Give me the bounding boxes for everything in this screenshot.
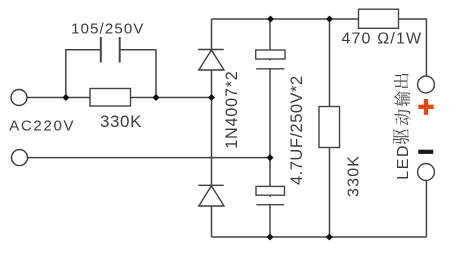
wire C1 left bracket bbox=[66, 50, 101, 98]
junction node C (N to caps mid) bbox=[267, 154, 274, 161]
terminal output minus bbox=[418, 164, 435, 181]
junction bottom rail at C3 bbox=[267, 234, 274, 241]
svg-text:330K: 330K bbox=[345, 155, 362, 197]
mask C3 gap bbox=[262, 197, 278, 204]
terminal output plus bbox=[418, 76, 435, 93]
glyph qu (drive) bbox=[393, 129, 409, 144]
junction top rail at C2 bbox=[267, 16, 274, 23]
glyph chu (out) bbox=[394, 74, 409, 89]
minus sign bbox=[418, 150, 433, 154]
svg-text:4.7UF/250V*2: 4.7UF/250V*2 bbox=[288, 75, 306, 185]
plus sign bbox=[418, 99, 433, 115]
wire neutral N to node C bbox=[28, 157, 270, 159]
terminal AC N bbox=[12, 150, 28, 166]
svg-text:105/250V: 105/250V bbox=[71, 20, 144, 37]
wire top rail bbox=[212, 18, 359, 20]
glyph dong (move) bbox=[395, 110, 411, 126]
wire C2 C3 branch vertical bbox=[269, 19, 271, 237]
svg-text:LED: LED bbox=[395, 144, 412, 180]
wire R2 to right corner bbox=[399, 19, 427, 76]
svg-text:1N4007*2: 1N4007*2 bbox=[223, 70, 241, 148]
mask C2 gap bbox=[262, 61, 278, 69]
capacitor C2 bottom plate bbox=[256, 68, 284, 70]
junction top rail at R3 bbox=[326, 16, 333, 23]
capacitor C2 top plate bbox=[256, 50, 285, 59]
diode D2 bbox=[198, 185, 224, 206]
capacitor C3 bottom plate bbox=[256, 204, 284, 206]
wire 330K branch vertical bbox=[329, 19, 331, 237]
junction bottom rail at R3 bbox=[326, 234, 333, 241]
diode D1 bbox=[198, 50, 224, 71]
wire bottom rail bbox=[212, 236, 427, 238]
wire C1 right bracket bbox=[120, 50, 156, 98]
glyph shu (transport) bbox=[394, 91, 410, 106]
resistor R1 330K body bbox=[90, 89, 131, 107]
capacitor C1 105/250V plates bbox=[101, 37, 120, 63]
wire diode branch vertical bbox=[211, 19, 213, 237]
junction node B top bbox=[62, 94, 69, 101]
terminal AC L bbox=[11, 90, 27, 106]
junction node B right bbox=[153, 94, 160, 101]
wire live L from terminal to node B bbox=[28, 97, 212, 99]
svg-text:470 Ω/1W: 470 Ω/1W bbox=[342, 30, 423, 47]
resistor R3 330K vertical body bbox=[319, 107, 340, 148]
wire minus terminal to bottom rail bbox=[425, 181, 427, 238]
svg-text:330K: 330K bbox=[100, 112, 142, 131]
svg-text:AC220V: AC220V bbox=[9, 118, 75, 135]
capacitor C3 top plate bbox=[256, 186, 285, 195]
junction node diodes mid bbox=[208, 94, 215, 101]
resistor R2 470ohm body bbox=[359, 9, 399, 28]
